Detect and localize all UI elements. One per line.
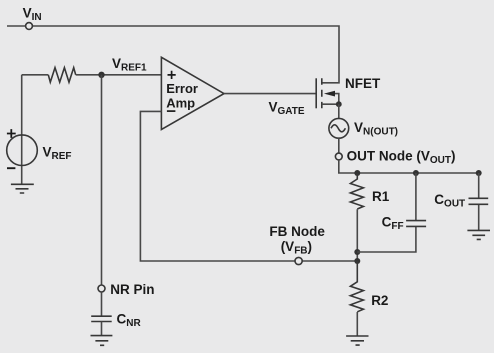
svg-text:VGATE: VGATE	[269, 99, 305, 117]
wire NFET body stub	[330, 94, 339, 105]
node NR pin terminal	[98, 285, 105, 292]
label + (error amp input)	[168, 71, 176, 79]
wire NR pin to CNR	[101, 292, 103, 316]
node FB junction	[354, 258, 360, 264]
svg-text:Amp: Amp	[166, 95, 195, 110]
node CFF bottom junction	[354, 249, 360, 255]
capacitor COUT	[469, 198, 489, 204]
wire VIN rail to NFET drain	[7, 26, 339, 83]
wire CNR to ground	[101, 322, 103, 336]
svg-text:OUT Node (VOUT): OUT Node (VOUT)	[347, 148, 456, 166]
source VN(OUT) noise generator	[329, 118, 349, 138]
ground (CNR)	[91, 336, 113, 346]
transistor NFET gate bar	[315, 78, 317, 108]
wire VREF top to ground	[21, 75, 23, 185]
node R1 top junction	[354, 170, 360, 176]
capacitor CFF	[406, 221, 426, 227]
node FB terminal	[295, 257, 302, 264]
svg-text:VN(OUT): VN(OUT)	[354, 120, 398, 138]
svg-text:NR Pin: NR Pin	[110, 282, 154, 297]
node OUT terminal	[335, 153, 342, 160]
wire CFF branch	[357, 173, 416, 252]
label - (error amp input)	[167, 110, 176, 112]
node source-body junction	[336, 101, 342, 107]
wire source to noise generator	[338, 104, 340, 118]
svg-text:Error: Error	[166, 81, 198, 96]
wire noise generator to OUT node	[338, 138, 340, 153]
svg-text:VREF: VREF	[43, 144, 72, 162]
resistor R1	[350, 173, 363, 209]
node VREF1 junction	[98, 72, 104, 78]
ground (COUT)	[467, 230, 490, 239]
wire error amp output to gate	[224, 93, 316, 95]
svg-text:VREF1: VREF1	[112, 56, 147, 74]
node COUT top junction	[476, 170, 482, 176]
svg-text:NFET: NFET	[345, 76, 381, 91]
svg-text:VIN: VIN	[23, 6, 42, 24]
wire VREF1 branch left	[22, 74, 49, 76]
node CFF top junction	[413, 170, 419, 176]
capacitor CNR	[91, 316, 112, 321]
node VIN terminal	[26, 23, 33, 30]
svg-text:R2: R2	[371, 293, 388, 308]
wire R1 bottom to FB node	[356, 209, 358, 261]
svg-text:(VFB): (VFB)	[281, 239, 312, 256]
svg-text:CFF: CFF	[382, 215, 404, 233]
svg-text:CNR: CNR	[117, 311, 142, 329]
svg-text:FB Node: FB Node	[269, 224, 325, 239]
voltage source VREF	[7, 135, 38, 166]
wire VREF1 node down to NR pin	[101, 75, 103, 285]
label + (VREF polarity)	[7, 129, 16, 138]
op-amp U1 Error Amp	[161, 57, 224, 129]
ground (VREF)	[11, 184, 34, 193]
label - (VREF polarity)	[7, 167, 15, 169]
wire OUT node rail	[339, 160, 479, 173]
resistor (series, unlabeled)	[48, 68, 75, 83]
wire NFET source stub	[322, 103, 339, 105]
resistor R2	[350, 261, 363, 312]
wire to error amp + input	[76, 74, 162, 76]
transistor NFET body arrow	[324, 91, 335, 97]
svg-text:COUT: COUT	[434, 192, 465, 210]
wire R2 to ground	[356, 312, 358, 336]
wire error amp inverting input feedback	[140, 111, 356, 261]
transistor NFET channel segments	[321, 78, 323, 108]
svg-text:R1: R1	[372, 189, 390, 204]
wire COUT branch	[478, 173, 480, 230]
ground (R2)	[346, 336, 368, 345]
